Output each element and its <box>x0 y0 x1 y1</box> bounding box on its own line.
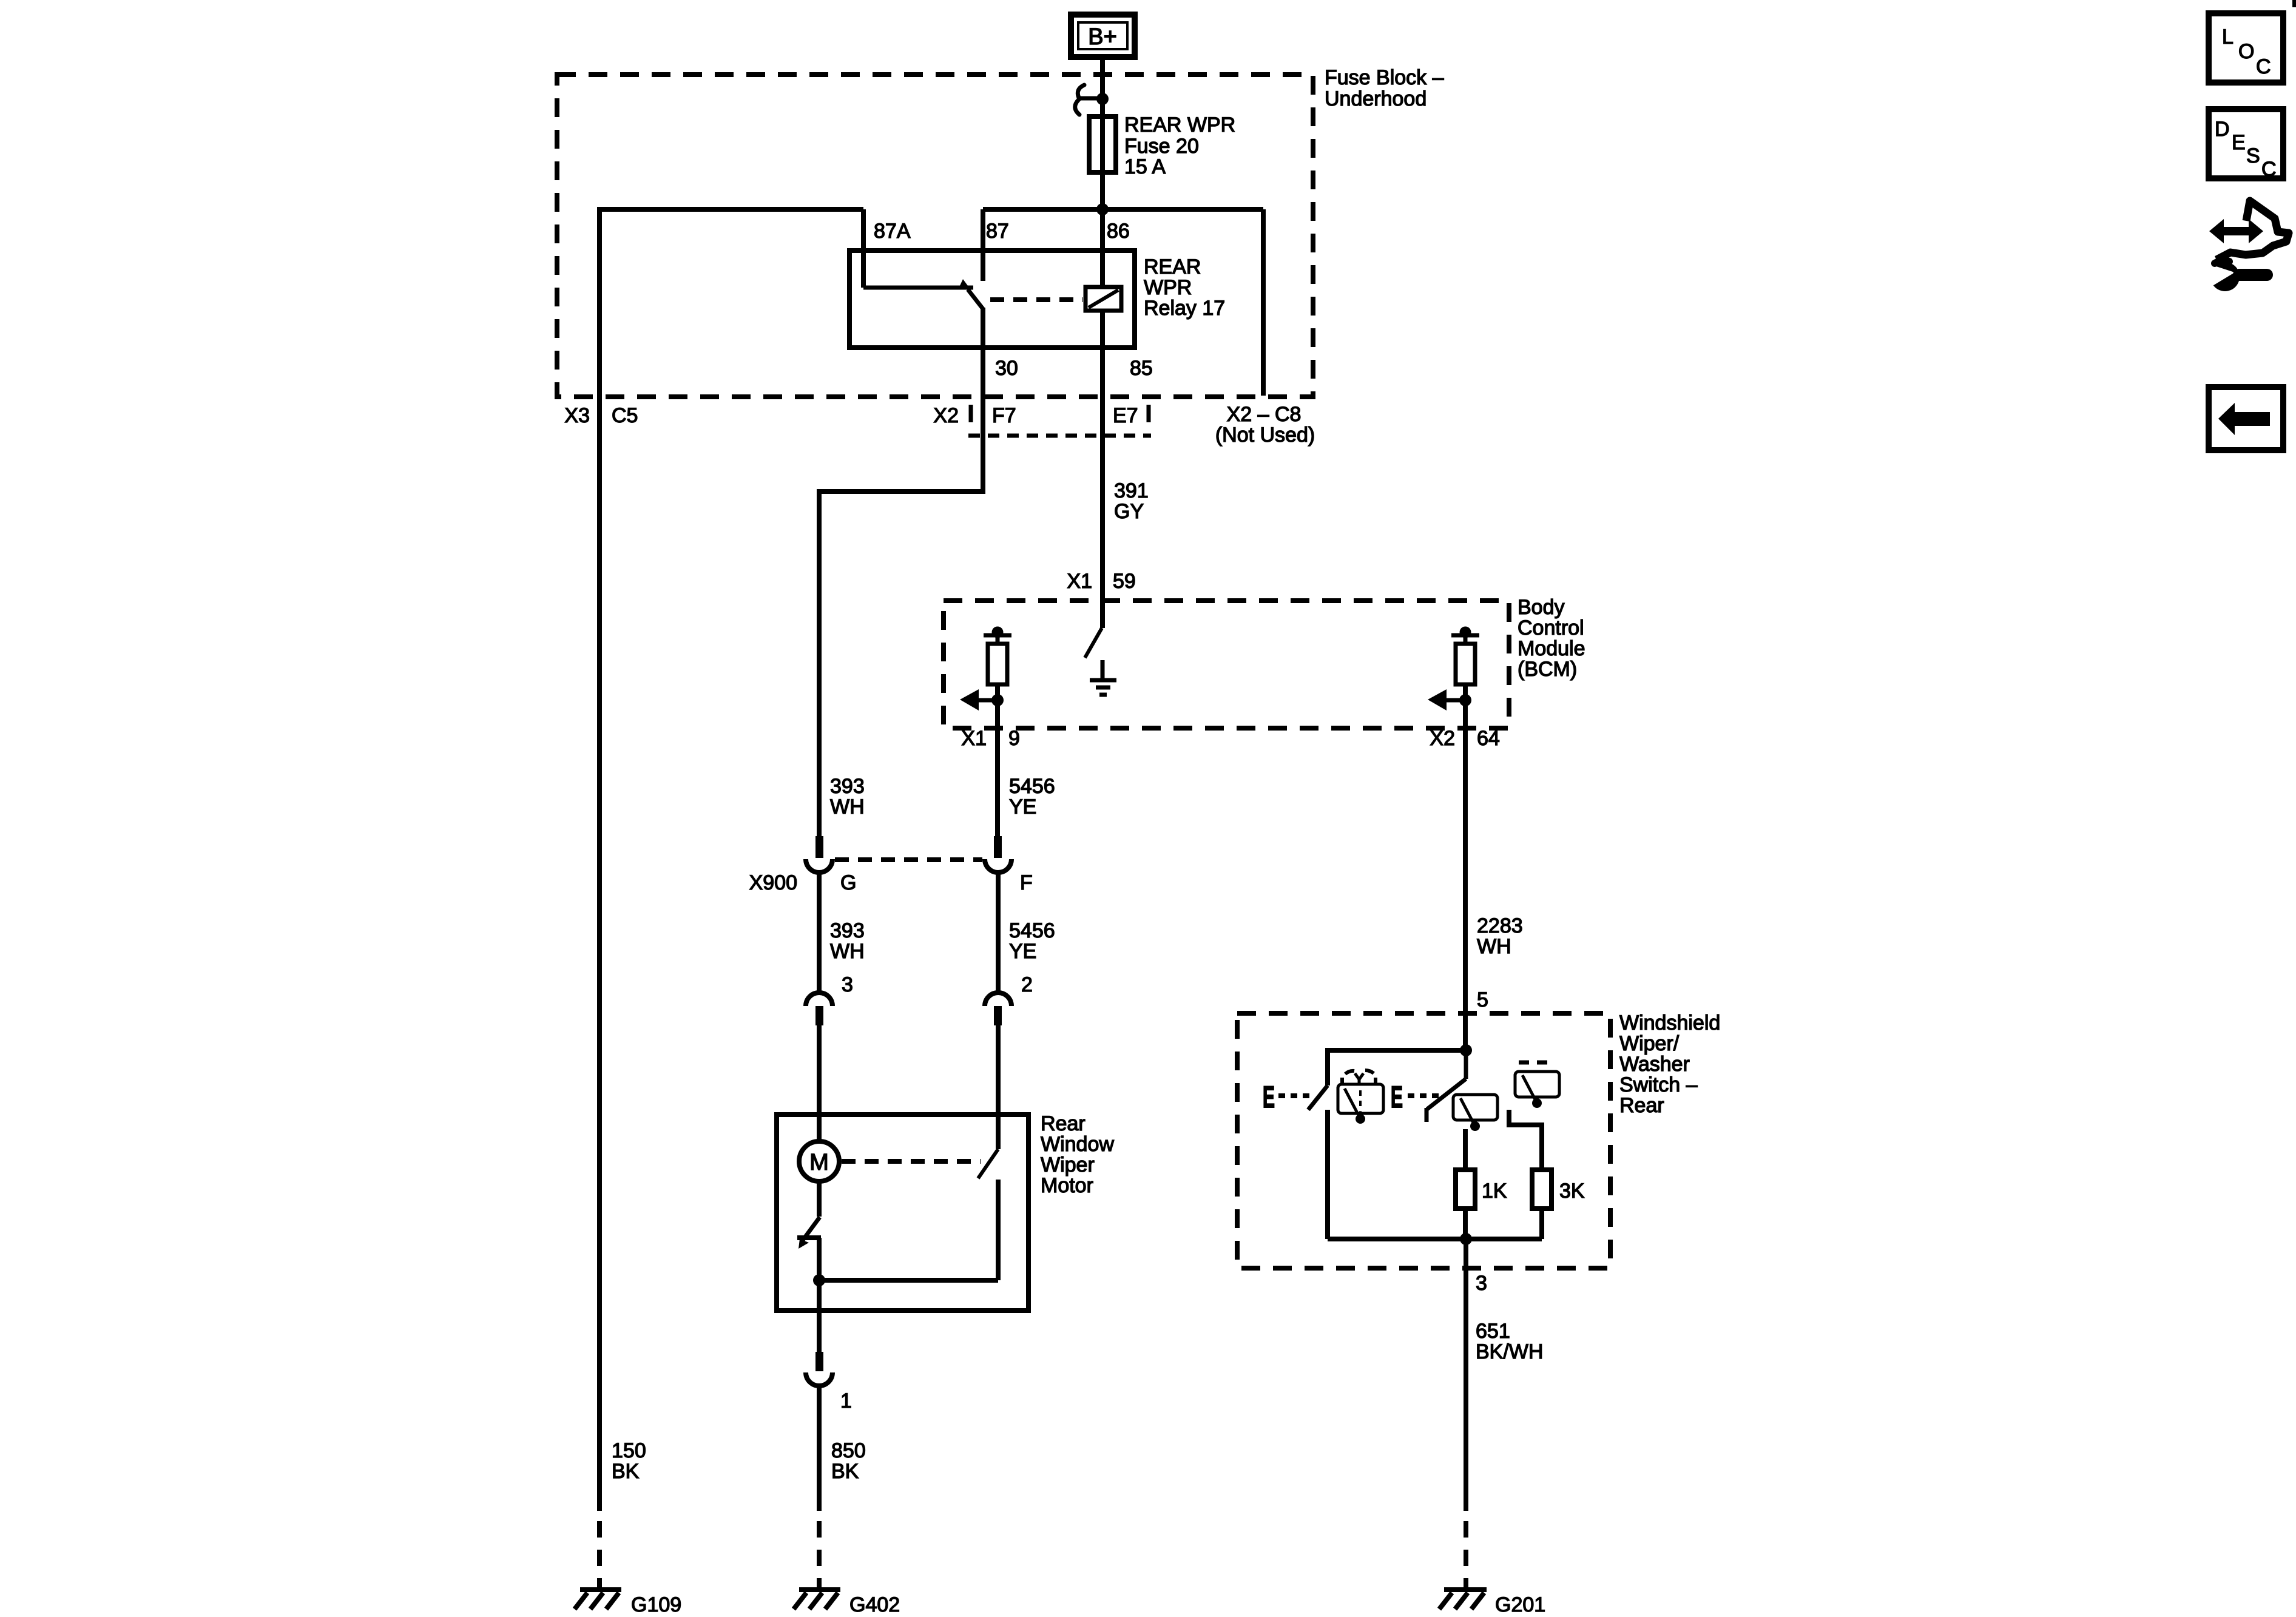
wire switch output pin 3 <box>1464 1239 1468 1511</box>
wire dashed to ground G201 <box>1464 1521 1468 1587</box>
wire X900 G to motor pin 3 <box>817 872 822 993</box>
splice hook symbol <box>1075 85 1098 115</box>
svg-text:BK: BK <box>831 1460 859 1483</box>
svg-text:E7: E7 <box>1113 404 1138 427</box>
connector motor pin 2 <box>985 993 1011 1025</box>
wire switch input pin 5 <box>1463 1014 1468 1053</box>
label 3K <box>1559 1180 1585 1203</box>
wire BCM pin 64 to switch 2283 WH <box>1463 728 1468 1014</box>
label G201 <box>1495 1593 1545 1616</box>
label REAR WPR Fuse 20 15 A <box>1124 113 1235 178</box>
wire BCM pin 9 to X900 G 5456 YE <box>995 728 1000 837</box>
wire 87A drop into relay <box>861 209 866 288</box>
label pin 1 <box>840 1389 852 1413</box>
wire motor pin 1 lead <box>817 1311 822 1353</box>
label circuit 850 BK <box>831 1439 866 1483</box>
label position E left <box>1263 1080 1275 1114</box>
wire motor internal bottom tie <box>819 1278 998 1283</box>
svg-text:(Not Used): (Not Used) <box>1215 424 1315 447</box>
svg-text:X2: X2 <box>1430 727 1455 750</box>
svg-text:YE: YE <box>1009 795 1036 819</box>
BCM pin 9 pull-up tick and dot <box>984 627 1011 644</box>
svg-text:S: S <box>2246 144 2260 167</box>
label 1K <box>1482 1180 1507 1203</box>
svg-text:87: 87 <box>986 220 1009 243</box>
connector X2 inline box F7 E7 <box>968 405 1151 436</box>
switch wiper arm right <box>1427 1053 1466 1122</box>
svg-text:651: 651 <box>1476 1320 1510 1343</box>
relay 87A contact line <box>863 286 973 290</box>
wire X2-C8 not used drop <box>1261 209 1266 396</box>
wire switch left lower contact <box>1325 1110 1330 1239</box>
junction dot switch common <box>1460 1044 1472 1056</box>
junction dot switch output <box>1460 1233 1472 1245</box>
label pin 87A <box>874 220 911 243</box>
wire relay pin 30 down and jog left <box>819 308 983 837</box>
svg-text:E: E <box>2232 131 2246 154</box>
relay movable contact arm from pin 30 <box>959 279 983 309</box>
power symbol B+ <box>1071 15 1135 57</box>
wiper icon right with dashes <box>1515 1062 1559 1108</box>
label pin 3 output <box>1476 1272 1487 1295</box>
svg-text:WH: WH <box>830 940 865 963</box>
svg-text:C5: C5 <box>612 404 638 427</box>
label circuit 391 GY <box>1114 479 1149 523</box>
svg-text:F: F <box>1020 871 1033 894</box>
wire switch common bus left <box>1328 1050 1466 1085</box>
svg-text:X1: X1 <box>1067 570 1092 593</box>
label G402 <box>849 1593 900 1616</box>
svg-text:X900: X900 <box>749 871 797 894</box>
label terminal G <box>840 871 856 894</box>
svg-text:BK: BK <box>612 1460 640 1483</box>
BCM dashed box <box>944 601 1509 728</box>
BCM resistor pin 64 <box>1456 644 1475 684</box>
svg-text:X1: X1 <box>961 727 987 750</box>
svg-text:5456: 5456 <box>1009 775 1055 798</box>
label X900 <box>749 871 797 894</box>
svg-text:15 A: 15 A <box>1124 155 1166 178</box>
wire left X3-C5 ground run 150 BK <box>597 207 602 1511</box>
label pin 3 <box>842 973 853 996</box>
wire switch bottom bus <box>1328 1237 1542 1241</box>
svg-text:Windshield: Windshield <box>1619 1011 1720 1035</box>
svg-text:Relay 17: Relay 17 <box>1144 297 1225 320</box>
motor park switch arm <box>797 1181 821 1249</box>
svg-text:150: 150 <box>612 1439 646 1462</box>
motor internal switch arm pin 2 <box>978 1149 998 1178</box>
wire motor switch lower contact <box>996 1180 1001 1280</box>
svg-text:B+: B+ <box>1088 24 1117 50</box>
svg-text:3: 3 <box>842 973 853 996</box>
BCM resistor pin 9 <box>988 644 1007 684</box>
resistor 3K <box>1532 1170 1551 1209</box>
svg-text:Motor: Motor <box>1041 1174 1093 1197</box>
wire to resistor 3K elbow <box>1509 1110 1542 1170</box>
ground G402 <box>794 1590 840 1609</box>
label circuit 651 BK WH <box>1476 1320 1543 1363</box>
svg-text:G109: G109 <box>631 1593 681 1616</box>
svg-text:M: M <box>809 1150 829 1175</box>
wire 3K to bottom bus <box>1539 1209 1544 1239</box>
svg-text:2: 2 <box>1021 973 1033 996</box>
label Rear Window Wiper Motor <box>1041 1112 1114 1197</box>
svg-text:850: 850 <box>831 1439 866 1462</box>
switch box dashed Windshield Wiper Washer Switch Rear <box>1237 1013 1610 1268</box>
wire motor pin 3 lead <box>817 1025 822 1141</box>
svg-text:Fuse Block –: Fuse Block – <box>1325 66 1444 89</box>
svg-text:D: D <box>2215 118 2230 141</box>
label C5 <box>612 404 638 427</box>
svg-text:9: 9 <box>1008 727 1020 750</box>
svg-text:REAR WPR: REAR WPR <box>1124 113 1235 137</box>
svg-text:E: E <box>1391 1080 1403 1114</box>
svg-text:85: 85 <box>1130 357 1153 380</box>
svg-text:5: 5 <box>1477 988 1488 1011</box>
svg-text:2283: 2283 <box>1477 914 1523 937</box>
svg-text:GY: GY <box>1114 500 1144 523</box>
svg-text:Fuse 20: Fuse 20 <box>1124 135 1199 158</box>
svg-text:Body: Body <box>1518 596 1565 619</box>
svg-text:Rear: Rear <box>1619 1094 1664 1117</box>
label pin 5 <box>1477 988 1488 1011</box>
svg-text:393: 393 <box>830 775 865 798</box>
svg-text:C: C <box>2261 158 2277 181</box>
label Fuse Block Underhood <box>1325 66 1444 110</box>
svg-text:Module: Module <box>1518 637 1585 660</box>
svg-text:391: 391 <box>1114 479 1149 502</box>
svg-text:REAR: REAR <box>1144 255 1201 279</box>
junction dot at B+ feed <box>1096 93 1109 105</box>
label X3 <box>564 404 590 427</box>
label X1 59 <box>1067 570 1135 593</box>
svg-text:Wiper: Wiper <box>1041 1153 1095 1176</box>
BCM signal arrow pin 9 <box>960 689 1004 711</box>
junction dot motor ground tie <box>813 1274 825 1286</box>
wire motor pin 2 lead <box>996 1025 1001 1149</box>
wire relay pin 86 coil feed <box>1100 209 1105 601</box>
motor M symbol <box>799 1141 839 1181</box>
label X2 <box>933 404 959 427</box>
svg-text:WH: WH <box>1477 935 1511 958</box>
wire horizontal bus left to 87A <box>599 207 863 212</box>
junction dot fuse to relay 86 <box>1096 203 1109 215</box>
svg-text:86: 86 <box>1107 220 1130 243</box>
page corner mark <box>2292 0 2296 7</box>
label circuit 150 BK <box>612 1439 646 1483</box>
wire 1K to bottom bus <box>1463 1209 1468 1239</box>
icon DESC box <box>2209 109 2283 181</box>
relay coil <box>1086 287 1121 311</box>
label F7 <box>992 404 1016 427</box>
connector motor pin 3 <box>806 993 832 1025</box>
label circuit 5456 YE lower <box>1009 919 1055 963</box>
relay actuating dashed link <box>990 297 1083 302</box>
wire B+ feed down to fuse <box>1100 59 1105 207</box>
wire dashed to ground G109 <box>597 1521 602 1587</box>
fuse REAR WPR Fuse 20 15A <box>1089 116 1116 172</box>
wire horizontal bus right 87 to X2-C8 <box>983 207 1263 212</box>
svg-text:Switch –: Switch – <box>1619 1073 1698 1096</box>
wire park switch to junction <box>817 1238 822 1311</box>
svg-text:30: 30 <box>995 357 1018 380</box>
svg-text:G: G <box>840 871 856 894</box>
ground G201 <box>1439 1590 1487 1609</box>
label G109 <box>631 1593 681 1616</box>
BCM pin 64 pull-up tick and dot <box>1451 627 1479 644</box>
motor box Rear Window Wiper Motor <box>777 1115 1028 1311</box>
svg-text:E: E <box>1263 1080 1275 1114</box>
label circuit 5456 YE upper <box>1009 775 1055 819</box>
wiper washer icon left <box>1338 1070 1383 1124</box>
svg-text:G402: G402 <box>849 1593 900 1616</box>
wire 87 stub into relay <box>981 209 985 281</box>
svg-text:5456: 5456 <box>1009 919 1055 942</box>
BCM internal switch to ground pin 59 <box>1085 601 1102 658</box>
fuse block underhood dashed box <box>557 75 1313 397</box>
switch wiper arm left <box>1308 1085 1328 1110</box>
svg-text:(BCM): (BCM) <box>1518 658 1577 681</box>
svg-text:Underhood: Underhood <box>1325 87 1427 110</box>
wire 850 BK ground run <box>817 1385 822 1511</box>
icon back arrow box <box>2209 387 2283 450</box>
svg-text:X2 – C8: X2 – C8 <box>1227 403 1302 426</box>
label Body Control Module BCM <box>1518 596 1585 681</box>
connector motor pin 1 <box>806 1352 832 1386</box>
label Windshield Wiper Washer Switch Rear <box>1619 1011 1720 1117</box>
wiper icon middle <box>1453 1095 1497 1131</box>
wire to resistor 1K <box>1463 1129 1468 1170</box>
svg-text:64: 64 <box>1477 727 1500 750</box>
svg-text:YE: YE <box>1009 940 1036 963</box>
label terminal F <box>1020 871 1033 894</box>
label REAR WPR Relay 17 <box>1144 255 1225 320</box>
wire X900 F to motor pin 2 <box>996 872 1001 993</box>
label pin 85 <box>1130 357 1153 380</box>
ground G109 <box>575 1590 621 1609</box>
BCM internal ground symbol <box>1090 660 1116 695</box>
svg-text:F7: F7 <box>992 404 1016 427</box>
motor dashed actuator link <box>842 1159 981 1164</box>
label circuit 393 WH upper <box>830 775 865 819</box>
svg-text:Control: Control <box>1518 616 1584 640</box>
svg-text:393: 393 <box>830 919 865 942</box>
connector X900 terminal F <box>985 836 1011 873</box>
icon diagnostic hand wrench <box>2203 201 2289 291</box>
svg-text:1K: 1K <box>1482 1180 1507 1203</box>
resistor 1K <box>1456 1170 1475 1209</box>
label pin 86 <box>1107 220 1130 243</box>
svg-text:WH: WH <box>830 795 865 819</box>
label position E right <box>1391 1080 1403 1114</box>
svg-text:Washer: Washer <box>1619 1053 1690 1076</box>
label circuit 393 WH lower <box>830 919 865 963</box>
label circuit 2283 WH <box>1477 914 1523 958</box>
svg-text:Rear: Rear <box>1041 1112 1086 1135</box>
svg-text:C: C <box>2256 55 2271 78</box>
label E7 <box>1113 404 1138 427</box>
svg-text:87A: 87A <box>874 220 911 243</box>
relay box REAR WPR Relay 17 <box>849 251 1135 348</box>
label pin 2 <box>1021 973 1033 996</box>
wire resistor to pin 64 <box>1463 684 1468 728</box>
label X2 64 <box>1430 727 1499 750</box>
label pin 30 <box>995 357 1018 380</box>
svg-text:3: 3 <box>1476 1272 1487 1295</box>
svg-text:WPR: WPR <box>1144 276 1192 299</box>
svg-text:3K: 3K <box>1559 1180 1585 1203</box>
svg-text:X2: X2 <box>933 404 959 427</box>
label pin 87 <box>986 220 1009 243</box>
svg-text:X3: X3 <box>564 404 590 427</box>
wire dashed to ground G402 <box>817 1521 822 1587</box>
svg-text:59: 59 <box>1113 570 1136 593</box>
svg-text:G201: G201 <box>1495 1593 1545 1616</box>
svg-text:O: O <box>2238 40 2254 63</box>
svg-text:Window: Window <box>1041 1133 1114 1156</box>
label X1 9 <box>961 727 1020 750</box>
dashed pointer E right <box>1408 1093 1439 1098</box>
BCM signal arrow pin 64 <box>1428 689 1471 711</box>
dashed pointer E left <box>1278 1093 1309 1098</box>
svg-text:Wiper/: Wiper/ <box>1619 1032 1680 1055</box>
connector X900 terminal G <box>806 836 832 873</box>
connector X900 dashed tie <box>835 857 982 862</box>
svg-text:1: 1 <box>840 1389 852 1413</box>
wire resistor to pin 9 <box>995 684 1000 728</box>
icon LOC box <box>2209 13 2283 83</box>
label X2 - C8 Not Used <box>1215 403 1315 447</box>
svg-text:L: L <box>2222 25 2234 49</box>
svg-text:BK/WH: BK/WH <box>1476 1340 1543 1363</box>
